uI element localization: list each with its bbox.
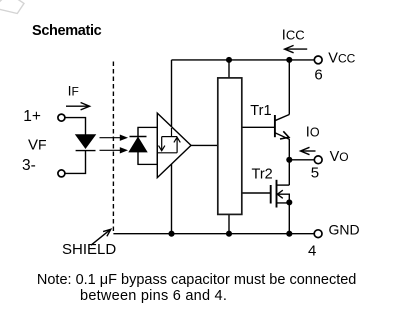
- svg-text:Note: 0.1 μF bypass capacitor: Note: 0.1 μF bypass capacitor must be co…: [37, 272, 356, 288]
- svg-text:SHIELD: SHIELD: [62, 241, 116, 258]
- svg-text:5: 5: [311, 164, 319, 181]
- svg-text:VCC: VCC: [328, 50, 355, 66]
- svg-text:Tr2: Tr2: [252, 166, 273, 182]
- svg-text:Schematic: Schematic: [32, 23, 102, 39]
- svg-text:IO: IO: [306, 125, 320, 141]
- svg-text:1+: 1+: [23, 108, 41, 125]
- svg-text:GND: GND: [329, 222, 360, 238]
- svg-text:VF: VF: [28, 137, 47, 154]
- svg-text:Tr1: Tr1: [250, 103, 271, 119]
- svg-text:IF: IF: [68, 83, 79, 99]
- svg-text:6: 6: [314, 66, 322, 83]
- svg-text:between pins 6 and 4.: between pins 6 and 4.: [80, 288, 227, 304]
- svg-text:ICC: ICC: [282, 27, 305, 43]
- svg-text:VO: VO: [330, 149, 349, 165]
- svg-text:3-: 3-: [22, 157, 36, 174]
- svg-text:4: 4: [308, 242, 316, 259]
